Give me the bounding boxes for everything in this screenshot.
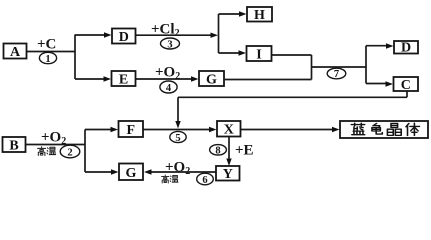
junction 4 vertical <box>365 46 367 84</box>
arrow Y to G lower <box>144 169 216 174</box>
svg-text:F: F <box>127 123 136 138</box>
step circle 4 <box>160 81 177 94</box>
box C <box>394 77 419 93</box>
step circle 3 <box>161 38 180 50</box>
svg-text:G: G <box>126 166 137 181</box>
arrow junction1 to D <box>75 32 112 37</box>
arrow junction4 to D right <box>366 43 394 48</box>
box A <box>4 44 27 60</box>
box G lower <box>119 164 143 181</box>
svg-text:H: H <box>254 8 265 23</box>
svg-text:3: 3 <box>167 39 172 50</box>
step circle 2 <box>60 145 80 158</box>
junction 1 vertical <box>74 35 76 80</box>
label +O2 lower <box>165 160 190 178</box>
box Y <box>216 166 240 182</box>
arrow junction2 to F <box>85 127 118 132</box>
feedback wire C down <box>406 91 408 97</box>
merged wire to junction 4 <box>312 66 367 68</box>
svg-text:X: X <box>224 123 234 138</box>
label +E <box>235 143 254 159</box>
box H <box>247 7 272 23</box>
step circle 1 <box>39 52 56 65</box>
arrow X to blue crystal <box>241 127 340 132</box>
arrow junction3 to I <box>219 50 247 55</box>
wire G to merge <box>224 79 312 81</box>
arrow junction1 to E <box>75 76 111 81</box>
svg-text:I: I <box>256 47 261 62</box>
svg-text:1: 1 <box>45 54 50 65</box>
svg-text:D: D <box>119 30 129 45</box>
junction 2 vertical <box>84 130 86 173</box>
feedback arrow down to line 5 <box>175 97 180 128</box>
box D right <box>394 40 418 55</box>
box F <box>119 121 144 138</box>
svg-text:E: E <box>119 72 128 87</box>
svg-text:Y: Y <box>223 167 233 182</box>
step circle 6 <box>197 173 214 186</box>
svg-text:2: 2 <box>67 147 72 158</box>
svg-text:+E: +E <box>235 143 254 159</box>
svg-text:5: 5 <box>175 133 180 144</box>
arrow F to X <box>143 127 217 132</box>
wire A to first junction <box>27 51 76 53</box>
svg-text:A: A <box>10 45 21 60</box>
svg-text:4: 4 <box>166 83 172 94</box>
merge vertical <box>311 55 313 80</box>
box X <box>217 121 241 138</box>
box I <box>247 46 272 62</box>
box E <box>112 71 136 87</box>
wire I to merge <box>272 54 312 56</box>
arrow D to junction 3 <box>136 33 219 38</box>
box B <box>3 137 26 153</box>
arrow junction3 to H <box>219 11 247 16</box>
arrow E to G <box>136 76 199 81</box>
blue crystal box <box>340 121 428 138</box>
svg-text:B: B <box>9 138 18 153</box>
label +O2 at B <box>41 130 66 148</box>
svg-text:7: 7 <box>334 69 339 80</box>
step circle 5 <box>170 131 186 143</box>
svg-text:D: D <box>401 40 411 55</box>
box D first <box>112 29 136 45</box>
label gaowen at B <box>38 147 56 156</box>
wire B to junction 2 <box>26 144 86 146</box>
step circle 8 <box>210 145 227 157</box>
svg-text:G: G <box>206 72 217 87</box>
arrow junction2 to G lower <box>85 169 119 174</box>
label +Cl2 <box>151 22 180 40</box>
svg-text:8: 8 <box>215 145 220 156</box>
box G first <box>199 71 224 87</box>
junction 3 vertical <box>218 14 220 53</box>
label +C <box>37 37 56 53</box>
svg-text:6: 6 <box>202 175 207 186</box>
label +O2 upper <box>155 65 180 83</box>
svg-text:C: C <box>401 78 411 93</box>
label gaowen lower <box>162 175 179 183</box>
feedback wire horizontal <box>178 96 407 98</box>
arrow junction4 to C <box>366 81 393 86</box>
svg-text:+C: +C <box>37 37 56 53</box>
step circle 7 <box>327 68 346 80</box>
arrow X down to Y <box>226 137 231 166</box>
